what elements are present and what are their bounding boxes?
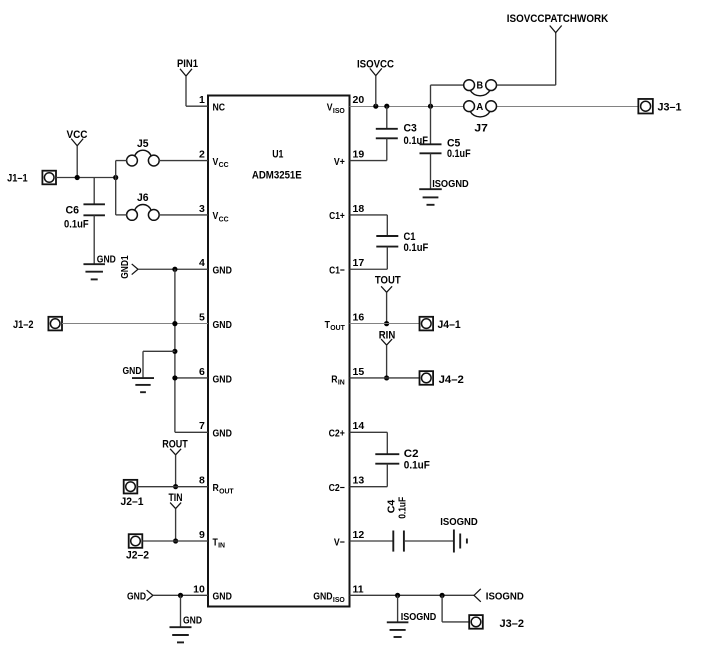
svg-text:17: 17 <box>353 257 365 269</box>
svg-text:CC: CC <box>219 160 229 169</box>
svg-text:C3: C3 <box>404 122 417 134</box>
svg-text:NC: NC <box>213 102 226 114</box>
svg-text:0.1uF: 0.1uF <box>404 460 430 472</box>
svg-text:6: 6 <box>199 366 205 378</box>
svg-text:16: 16 <box>353 312 365 324</box>
svg-text:12: 12 <box>353 529 365 541</box>
svg-text:13: 13 <box>353 475 365 487</box>
svg-text:J3–1: J3–1 <box>658 102 682 114</box>
svg-text:0.1uF: 0.1uF <box>404 242 429 254</box>
svg-text:0.1uF: 0.1uF <box>447 148 471 160</box>
svg-text:C1+: C1+ <box>329 210 345 222</box>
svg-text:ISOVCC: ISOVCC <box>357 58 394 70</box>
svg-text:PIN1: PIN1 <box>177 58 198 70</box>
svg-text:GND: GND <box>183 614 202 626</box>
svg-text:J2–2: J2–2 <box>126 549 149 561</box>
svg-text:0.1uF: 0.1uF <box>64 219 89 231</box>
svg-text:5: 5 <box>199 312 205 324</box>
svg-text:V−: V− <box>334 536 345 548</box>
svg-text:ISOVCCPATCHWORK: ISOVCCPATCHWORK <box>507 13 609 25</box>
svg-text:ISO: ISO <box>333 595 345 604</box>
svg-text:GND: GND <box>127 591 146 603</box>
svg-text:C2+: C2+ <box>329 428 345 440</box>
svg-text:GND: GND <box>213 319 233 331</box>
svg-text:14: 14 <box>353 420 365 432</box>
svg-text:GND: GND <box>213 373 233 385</box>
svg-text:IN: IN <box>218 541 225 550</box>
svg-text:15: 15 <box>353 366 365 378</box>
svg-text:GND1: GND1 <box>119 255 131 279</box>
svg-text:2: 2 <box>199 148 205 160</box>
svg-text:GND: GND <box>97 253 116 265</box>
svg-text:V: V <box>213 210 219 222</box>
svg-text:J3–2: J3–2 <box>500 618 525 630</box>
svg-text:J6: J6 <box>137 192 149 204</box>
svg-text:V: V <box>213 156 219 168</box>
svg-text:GND: GND <box>313 591 333 603</box>
svg-text:J2–1: J2–1 <box>121 496 144 508</box>
svg-text:ISOGND: ISOGND <box>440 516 478 528</box>
svg-text:ISOGND: ISOGND <box>486 590 524 602</box>
svg-text:4: 4 <box>199 257 205 269</box>
svg-text:ADM3251E: ADM3251E <box>252 169 302 181</box>
svg-text:7: 7 <box>199 420 205 432</box>
svg-text:CC: CC <box>219 215 229 224</box>
svg-text:1: 1 <box>199 94 205 106</box>
svg-text:3: 3 <box>199 203 205 215</box>
svg-text:8: 8 <box>199 475 205 487</box>
svg-text:ISOGND: ISOGND <box>401 611 437 623</box>
svg-text:C1−: C1− <box>329 265 345 277</box>
svg-text:VCC: VCC <box>67 129 88 141</box>
svg-text:V+: V+ <box>334 156 345 168</box>
svg-text:9: 9 <box>199 529 205 541</box>
svg-text:11: 11 <box>353 583 364 595</box>
svg-text:C6: C6 <box>66 205 80 217</box>
svg-text:T: T <box>325 319 331 331</box>
svg-text:J4–2: J4–2 <box>439 374 464 386</box>
svg-text:J7: J7 <box>474 123 488 135</box>
svg-text:OUT: OUT <box>330 323 345 332</box>
svg-text:J4–1: J4–1 <box>438 319 461 331</box>
svg-text:ISO: ISO <box>333 106 345 115</box>
svg-text:J5: J5 <box>137 138 149 150</box>
svg-text:R: R <box>331 373 338 385</box>
svg-text:U1: U1 <box>272 148 283 160</box>
svg-text:TOUT: TOUT <box>375 274 401 286</box>
svg-text:10: 10 <box>193 583 205 595</box>
svg-text:B: B <box>477 80 484 92</box>
svg-text:A: A <box>476 101 483 113</box>
svg-text:OUT: OUT <box>219 486 234 495</box>
svg-text:C2−: C2− <box>329 482 345 494</box>
svg-text:GND: GND <box>213 265 233 277</box>
svg-text:19: 19 <box>353 148 365 160</box>
svg-text:TIN: TIN <box>169 492 183 504</box>
svg-text:GND: GND <box>123 365 142 377</box>
svg-text:GND: GND <box>213 428 233 440</box>
svg-text:20: 20 <box>353 94 365 106</box>
svg-text:18: 18 <box>353 203 365 215</box>
svg-text:GND: GND <box>213 591 233 603</box>
svg-text:J1–1: J1–1 <box>7 173 28 185</box>
svg-text:J1–2: J1–2 <box>13 319 34 331</box>
svg-text:ROUT: ROUT <box>162 439 188 451</box>
svg-text:C2: C2 <box>404 448 419 460</box>
svg-text:0.1uF: 0.1uF <box>396 496 408 518</box>
svg-text:ISOGND: ISOGND <box>432 178 469 190</box>
svg-text:IN: IN <box>338 378 345 387</box>
svg-text:V: V <box>327 102 333 114</box>
